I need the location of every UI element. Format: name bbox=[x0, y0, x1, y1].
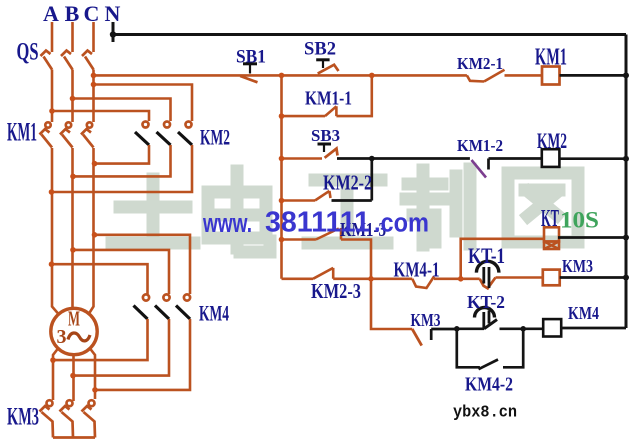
svg-text:KM3: KM3 bbox=[562, 256, 593, 276]
svg-text:M: M bbox=[68, 307, 80, 331]
wire control row1 bbox=[240, 70, 542, 82]
wire phase B mid bbox=[71, 70, 74, 123]
wire motor right terminal down bbox=[90, 349, 95, 400]
wire motor bottom bus bbox=[53, 436, 95, 439]
wire KM3 coil to bus bbox=[560, 276, 626, 279]
svg-text:KM1: KM1 bbox=[535, 45, 567, 71]
svg-text:KM4: KM4 bbox=[199, 301, 229, 326]
timer contact KT-2 bbox=[457, 308, 523, 329]
contact KM4-2 branch bbox=[457, 329, 523, 369]
wire phase A lower bbox=[52, 148, 59, 314]
wire branch A to KM4 left pole bbox=[52, 264, 148, 294]
svg-text:KM2-2: KM2-2 bbox=[323, 171, 372, 195]
wire KM4 coil to bus bbox=[561, 327, 626, 330]
svg-text:KT: KT bbox=[541, 206, 559, 232]
junction dots black bbox=[110, 31, 629, 331]
wire phase C mid bbox=[92, 70, 95, 123]
pushbutton SB3 bbox=[318, 144, 338, 158]
svg-text:KM2: KM2 bbox=[200, 125, 230, 150]
wire branch C to control row1 bbox=[94, 74, 241, 77]
contact KM1-2 bbox=[472, 159, 542, 178]
contactor KM2 main contacts bbox=[135, 122, 192, 146]
svg-text:3: 3 bbox=[57, 326, 67, 348]
contact KM2-2 branch bbox=[282, 191, 331, 201]
svg-text:SB3: SB3 bbox=[311, 126, 340, 145]
wire N bus bbox=[113, 22, 626, 328]
wire phase B top bbox=[71, 22, 74, 52]
pushbutton SB2 bbox=[316, 60, 338, 74]
wire motor mid terminal down bbox=[72, 355, 75, 401]
contactor KM4 main contacts bbox=[134, 294, 191, 319]
wire KT coil to bus bbox=[558, 236, 626, 239]
wire branch C to KM2 right pole bbox=[94, 85, 193, 122]
wire phase A mid bbox=[51, 70, 54, 123]
svg-text:KM4-2: KM4-2 bbox=[465, 374, 513, 396]
wire KM2 right pole down to phase A bbox=[52, 145, 193, 192]
wire phase A top bbox=[51, 22, 54, 52]
wire phase C top bbox=[92, 22, 95, 52]
char gong bbox=[308, 180, 387, 243]
contactor KM1 main contacts bbox=[40, 122, 94, 147]
wire branch B to KM4 mid pole bbox=[73, 250, 169, 294]
wire branch B to KM2 mid pole bbox=[73, 99, 171, 122]
svg-text:N: N bbox=[105, 1, 121, 26]
wire KT-1 to KM3 coil bbox=[496, 276, 543, 279]
coil KM3 bbox=[543, 270, 560, 286]
wire KM2 mid pole down to phase B bbox=[73, 145, 171, 176]
char tu2 bbox=[508, 173, 578, 242]
char dian bbox=[208, 171, 270, 252]
svg-text:KM1-1: KM1-1 bbox=[305, 88, 352, 110]
wire KM4 left pole return bbox=[53, 319, 148, 360]
wire row1 to bus bbox=[560, 74, 627, 77]
svg-text:KT-1: KT-1 bbox=[468, 243, 505, 268]
contact KM4-1 bbox=[371, 277, 480, 289]
wire row2 black bbox=[337, 157, 470, 160]
svg-text:KM4-1: KM4-1 bbox=[394, 258, 440, 282]
wire KM2 left pole down to phase C bbox=[95, 145, 150, 164]
timer contact KT-1 bbox=[476, 261, 499, 288]
coil KM1 bbox=[542, 67, 560, 85]
wire phase B lower bbox=[71, 148, 74, 309]
svg-text:KM1-2: KM1-2 bbox=[457, 136, 503, 155]
svg-text:KM2: KM2 bbox=[537, 128, 567, 153]
wire branch A to KM2 left pole bbox=[52, 111, 149, 121]
coil KM4 bbox=[523, 327, 543, 330]
contactor KM3 main contacts bbox=[40, 400, 96, 437]
svg-text:ybx8.cn: ybx8.cn bbox=[453, 403, 517, 422]
svg-text:KM2-1: KM2-1 bbox=[457, 54, 503, 73]
svg-text:KM1: KM1 bbox=[7, 118, 37, 147]
svg-text:KM3: KM3 bbox=[411, 310, 441, 330]
wire branch C to KM4 right pole bbox=[95, 235, 191, 294]
svg-text:QS: QS bbox=[17, 39, 39, 66]
wire row2 to bus bbox=[559, 157, 626, 160]
contact KM1-1 branch bbox=[282, 75, 372, 116]
svg-text:KM2-3: KM2-3 bbox=[311, 279, 361, 303]
wire motor left terminal down bbox=[53, 349, 58, 401]
motor M 3~ bbox=[51, 308, 97, 354]
watermark bbox=[112, 169, 578, 252]
contact KM2-3 row bbox=[282, 268, 372, 279]
timer coil KT bbox=[544, 227, 559, 249]
svg-text:KT-2: KT-2 bbox=[467, 292, 505, 312]
char zhi bbox=[406, 169, 470, 245]
wire phase C lower bbox=[89, 148, 94, 314]
svg-text:SB1: SB1 bbox=[236, 47, 266, 68]
svg-text:KM3: KM3 bbox=[7, 404, 39, 431]
contact KM1-3 row bbox=[282, 228, 372, 279]
svg-text:KM4: KM4 bbox=[568, 303, 599, 323]
svg-text:SB2: SB2 bbox=[304, 39, 336, 60]
switch QS bbox=[41, 51, 94, 70]
coil KM2 bbox=[542, 149, 560, 167]
wire control left bus bbox=[280, 75, 283, 278]
pushbutton SB1 bbox=[240, 64, 257, 83]
wire KM4 mid pole return bbox=[73, 319, 169, 376]
svg-text:10S: 10S bbox=[560, 208, 599, 233]
wire KM4 right pole return bbox=[95, 319, 190, 390]
svg-text:C: C bbox=[84, 1, 100, 26]
timer coil KT branch bbox=[461, 239, 543, 279]
char tu bbox=[112, 179, 194, 243]
svg-text:www.: www. bbox=[202, 208, 252, 238]
wire right bus bbox=[625, 35, 628, 329]
svg-text:.com: .com bbox=[374, 208, 429, 238]
contact KM3 NC row4 bbox=[371, 279, 457, 346]
svg-text:3811111: 3811111 bbox=[265, 207, 370, 239]
junction dots orange bbox=[49, 73, 464, 393]
